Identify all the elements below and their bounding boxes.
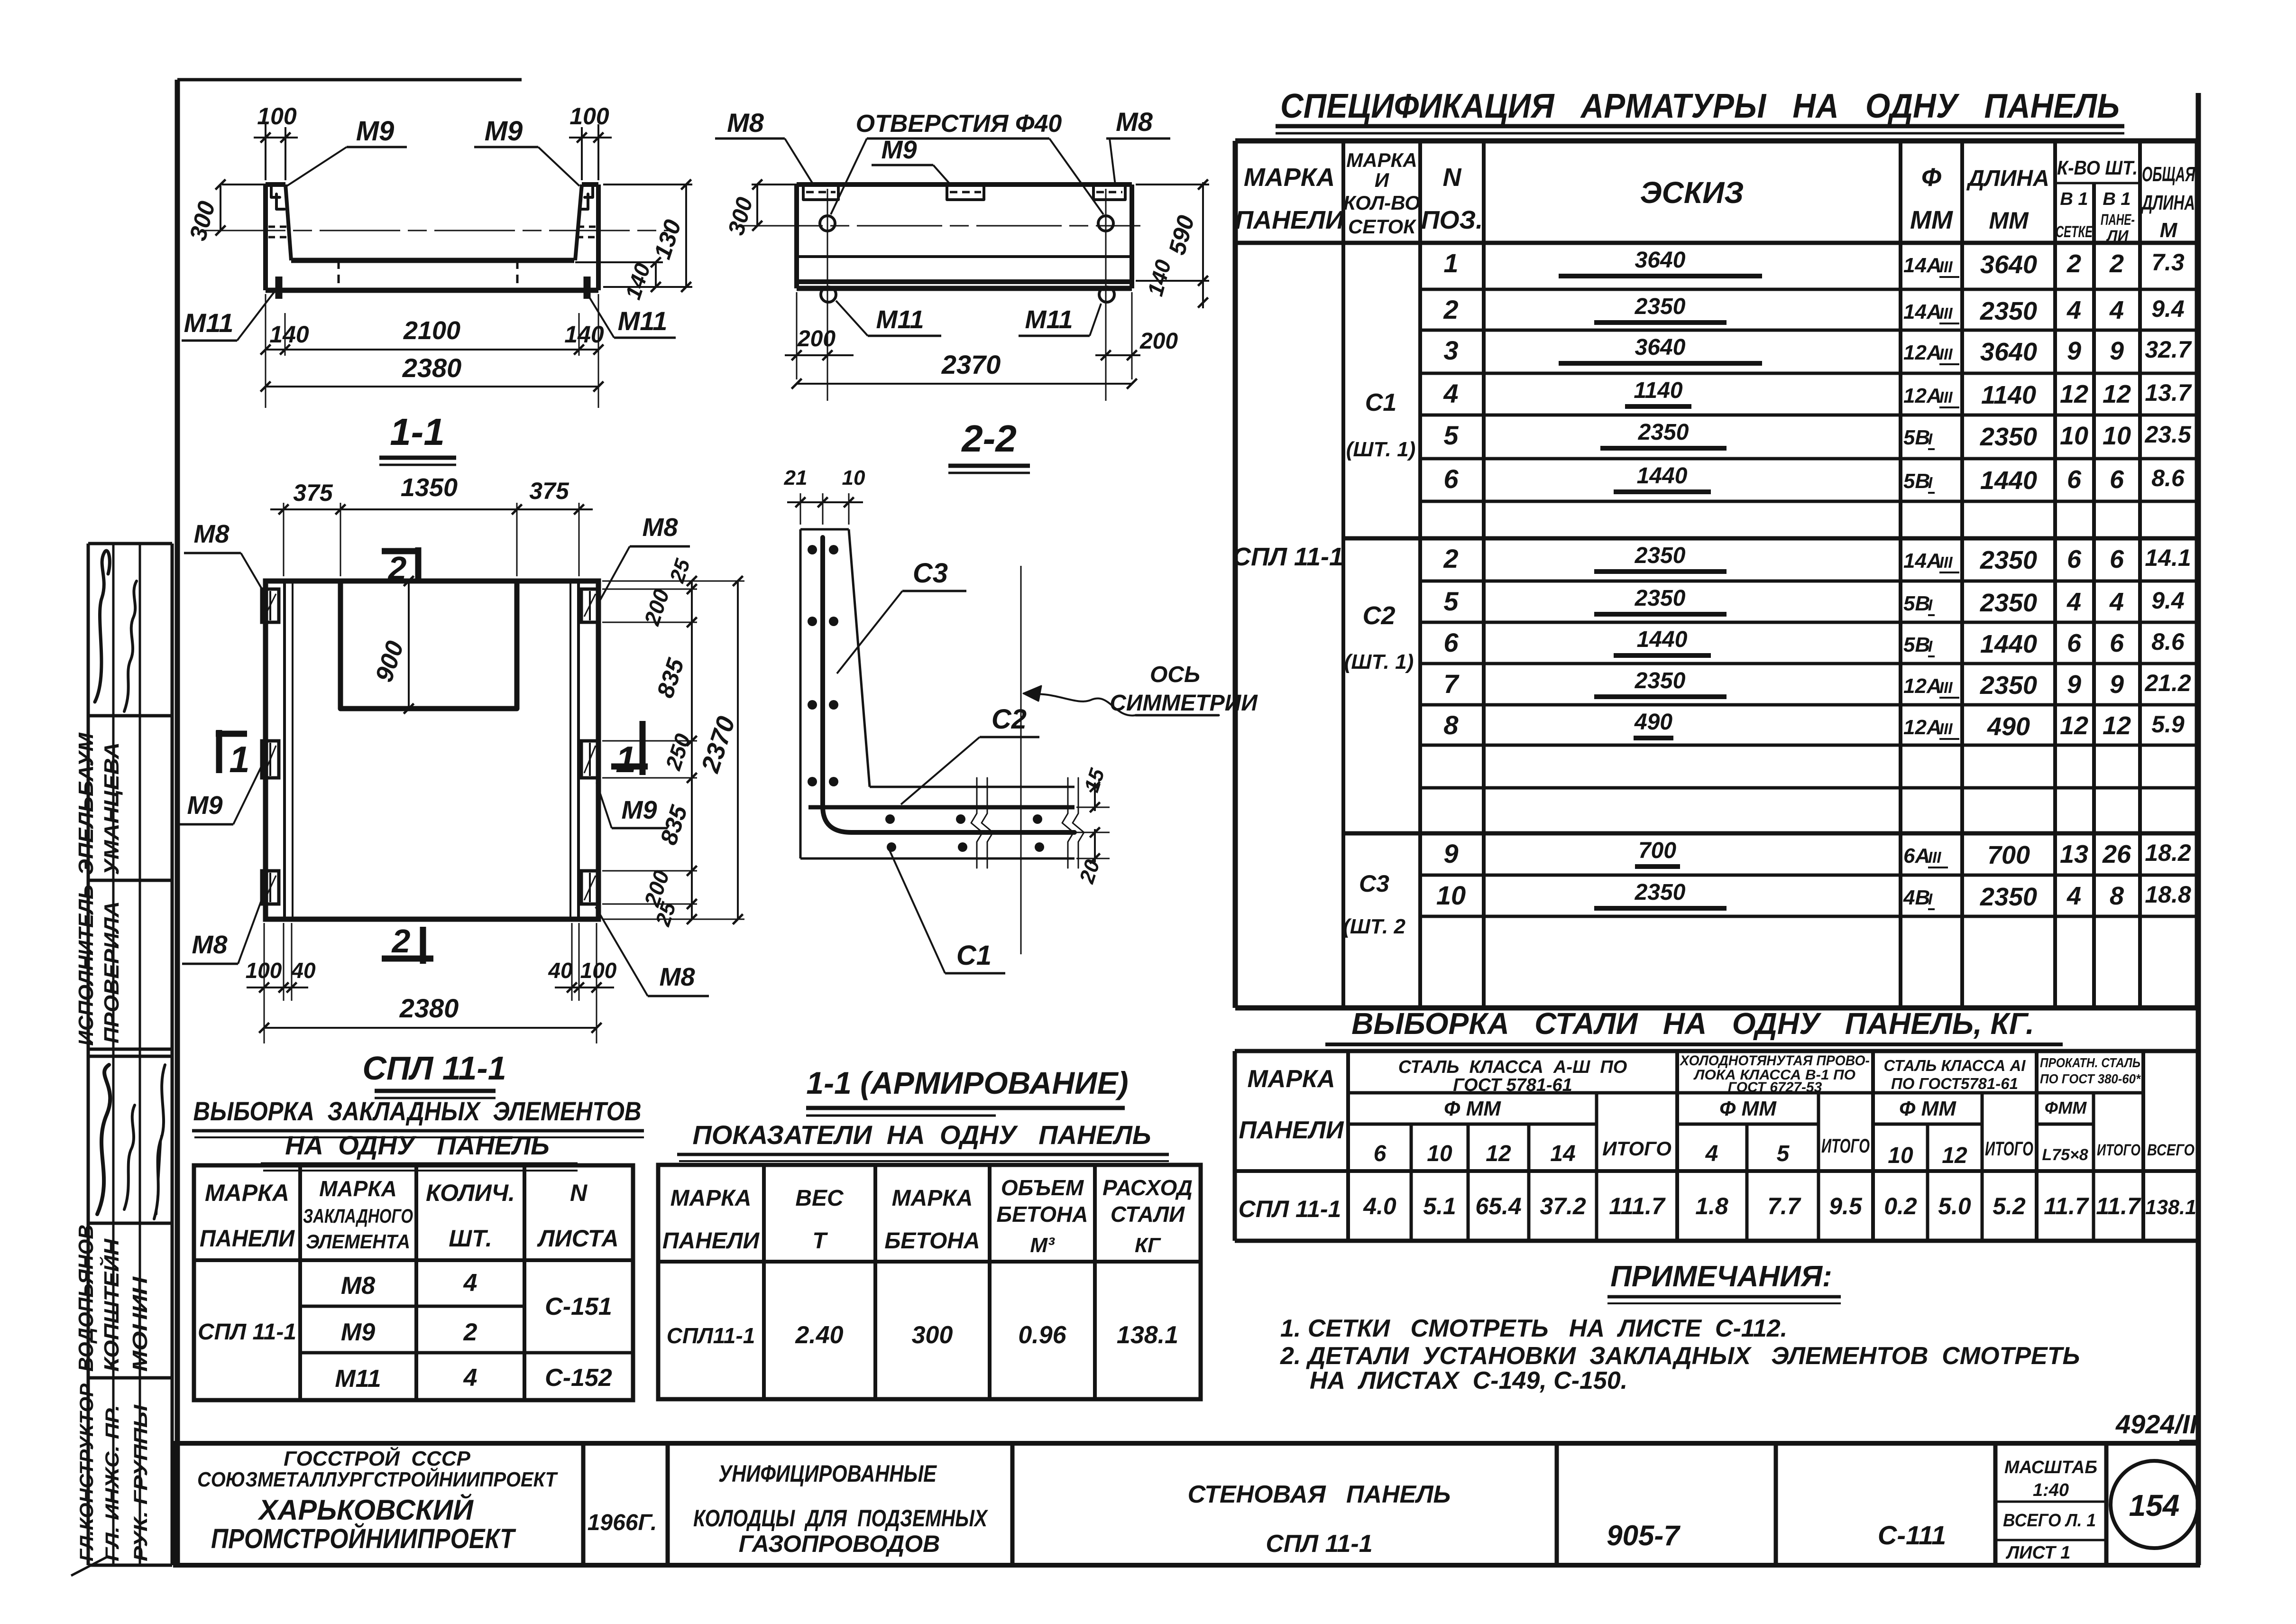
- svg-text:9: 9: [2067, 337, 2081, 365]
- embedded element M9 mid-left: [262, 741, 279, 778]
- horizontal axis line: [205, 230, 671, 231]
- svg-text:ГЛ.КОНСТРУКТОР: ГЛ.КОНСТРУКТОР: [76, 1384, 97, 1561]
- M11 circle right bottom: [1099, 287, 1114, 302]
- svg-text:ПАНЕ-: ПАНЕ-: [2101, 211, 2135, 228]
- svg-text:М11: М11: [184, 308, 234, 338]
- top notch M9 center: [947, 185, 984, 200]
- svg-text:14А: 14А: [1903, 300, 1942, 323]
- sheet frame left border: [175, 80, 180, 1565]
- svg-text:12: 12: [2060, 711, 2088, 740]
- svg-text:ЭЛЕМЕНТА: ЭЛЕМЕНТА: [306, 1230, 410, 1253]
- svg-text:3640: 3640: [1635, 335, 1686, 360]
- dashed joint lines in slab: [338, 260, 340, 289]
- svg-text:УНИФИЦИРОВАННЫЕ: УНИФИЦИРОВАННЫЕ: [718, 1460, 937, 1487]
- svg-text:ФММ: ФММ: [2045, 1098, 2087, 1117]
- svg-text:8: 8: [2110, 882, 2124, 910]
- svg-text:С2: С2: [992, 704, 1027, 735]
- svg-text:1-1: 1-1: [390, 411, 445, 453]
- svg-text:ПРОВЕРИЛА: ПРОВЕРИЛА: [100, 901, 123, 1043]
- title block frame: [173, 1443, 2200, 1565]
- svg-text:8.6: 8.6: [2151, 465, 2185, 491]
- dim 300 left: [220, 185, 221, 231]
- svg-text:9.4: 9.4: [2151, 295, 2185, 322]
- svg-text:III: III: [1939, 554, 1953, 571]
- horizontal axis line 2-2: [737, 225, 1140, 227]
- break marks on leg: [971, 778, 983, 868]
- svg-text:37.2: 37.2: [1540, 1193, 1586, 1219]
- hole F40 left: [820, 216, 835, 231]
- svg-text:140: 140: [564, 321, 604, 348]
- svg-text:4: 4: [2109, 588, 2124, 616]
- svg-text:10: 10: [1436, 880, 1466, 910]
- svg-text:ИТОГО: ИТОГО: [1985, 1137, 2033, 1160]
- embedded element M8 top-right: [581, 589, 598, 622]
- svg-text:2350: 2350: [1635, 668, 1686, 693]
- svg-text:ОТВЕРСТИЯ Ф40: ОТВЕРСТИЯ Ф40: [856, 110, 1062, 138]
- svg-text:ВСЕГО: ВСЕГО: [2147, 1141, 2195, 1159]
- svg-text:2.40: 2.40: [795, 1321, 843, 1349]
- svg-text:100: 100: [246, 958, 282, 983]
- svg-text:23.5: 23.5: [2144, 421, 2192, 448]
- svg-text:1440: 1440: [1637, 463, 1688, 489]
- svg-text:ЭСКИЗ: ЭСКИЗ: [1640, 175, 1744, 210]
- dims 140/2100/140 bottom: [265, 294, 266, 408]
- svg-text:ОБЩАЯ: ОБЩАЯ: [2142, 163, 2195, 186]
- svg-text:С1: С1: [956, 940, 992, 971]
- svg-text:СЕТКЕ: СЕТКЕ: [2056, 223, 2093, 241]
- svg-text:5: 5: [1443, 420, 1459, 450]
- bottom dims 100/40 left: [264, 923, 265, 1043]
- plan: step lines left: [283, 581, 286, 919]
- svg-text:РУК. ГРУППЫ: РУК. ГРУППЫ: [130, 1404, 151, 1561]
- svg-text:ОСЬ: ОСЬ: [1150, 662, 1200, 687]
- plan top dims 375/1350/375: [283, 503, 285, 576]
- embedded element M8 bottom-right: [581, 871, 598, 904]
- svg-text:КОЛОДЦЫ ДЛЯ ПОДЗЕМНЫХ: КОЛОДЦЫ ДЛЯ ПОДЗЕМНЫХ: [693, 1505, 988, 1532]
- svg-text:М8: М8: [642, 513, 678, 542]
- svg-text:490: 490: [1987, 712, 2030, 741]
- embedded element M9 mid-right: [581, 741, 598, 778]
- svg-text:6: 6: [2110, 629, 2124, 657]
- svg-text:12А: 12А: [1903, 716, 1942, 739]
- svg-text:I: I: [1928, 430, 1933, 448]
- svg-text:490: 490: [1634, 710, 1672, 735]
- svg-text:I: I: [1928, 596, 1933, 614]
- svg-text:138.1: 138.1: [1117, 1321, 1178, 1349]
- dim 200 left bottom: [796, 292, 798, 379]
- dim 2380 plan: [264, 1027, 597, 1029]
- svg-text:5В: 5В: [1903, 592, 1930, 615]
- section mark 1 left: [216, 730, 222, 773]
- svg-text:2350: 2350: [1635, 586, 1686, 611]
- svg-text:40: 40: [548, 958, 573, 983]
- svg-text:5В: 5В: [1903, 470, 1930, 493]
- svg-text:МАРКА: МАРКА: [1244, 163, 1335, 192]
- svg-text:(ШТ. 1): (ШТ. 1): [1344, 650, 1414, 674]
- svg-text:ПОЗ.: ПОЗ.: [1421, 206, 1483, 234]
- dim 2380 bottom: [266, 386, 598, 388]
- svg-text:СЕТОК: СЕТОК: [1348, 215, 1417, 238]
- svg-text:БЕТОНА: БЕТОНА: [997, 1202, 1088, 1227]
- svg-text:2100: 2100: [403, 316, 460, 345]
- svg-text:СПЛ 11-1: СПЛ 11-1: [1266, 1530, 1372, 1558]
- svg-text:5.0: 5.0: [1938, 1193, 1971, 1219]
- svg-text:КОЛИЧ.: КОЛИЧ.: [426, 1180, 515, 1206]
- svg-text:И: И: [1375, 169, 1389, 191]
- svg-text:СТАЛЬ КЛАССА АI: СТАЛЬ КЛАССА АI: [1884, 1057, 2026, 1074]
- svg-text:ХАРЬКОВСКИЙ: ХАРЬКОВСКИЙ: [257, 1494, 474, 1526]
- svg-text:13: 13: [2060, 840, 2088, 868]
- svg-text:Т: Т: [812, 1228, 828, 1254]
- svg-text:УМАНЦЕВА: УМАНЦЕВА: [100, 742, 123, 875]
- svg-text:ЗАКЛАДНОГО: ЗАКЛАДНОГО: [303, 1205, 413, 1227]
- svg-text:13.7: 13.7: [2145, 379, 2192, 406]
- svg-text:40: 40: [291, 958, 316, 983]
- svg-text:6: 6: [2110, 465, 2124, 494]
- svg-text:СПЛ 11-1: СПЛ 11-1: [1239, 1196, 1341, 1222]
- svg-text:2350: 2350: [1980, 546, 2037, 574]
- svg-text:2380: 2380: [402, 353, 462, 383]
- svg-text:III: III: [1939, 258, 1953, 276]
- signature stamp strip (rotated title block on left margin): [88, 544, 172, 1565]
- svg-text:М9: М9: [621, 796, 657, 824]
- svg-text:32.7: 32.7: [2145, 336, 2192, 363]
- svg-text:3640: 3640: [1980, 250, 2037, 279]
- svg-text:5.2: 5.2: [1993, 1193, 2026, 1219]
- svg-text:2: 2: [463, 1319, 478, 1346]
- svg-text:12А: 12А: [1903, 674, 1942, 698]
- svg-text:ПАНЕЛИ: ПАНЕЛИ: [1239, 1116, 1345, 1144]
- svg-text:III: III: [1939, 679, 1953, 696]
- svg-text:4: 4: [1443, 378, 1458, 408]
- svg-text:2350: 2350: [1635, 880, 1686, 905]
- steel table grid: [1235, 1051, 2198, 1241]
- svg-text:12А: 12А: [1903, 384, 1942, 407]
- svg-text:8.6: 8.6: [2151, 628, 2185, 655]
- svg-text:С1: С1: [1365, 389, 1396, 416]
- svg-text:НА ЛИСТАХ С-149, С-150.: НА ЛИСТАХ С-149, С-150.: [1310, 1367, 1627, 1394]
- dim 15 right of leg: [1076, 807, 1110, 808]
- svg-text:НА ОДНУ ПАНЕЛЬ: НА ОДНУ ПАНЕЛЬ: [285, 1130, 550, 1160]
- svg-text:ИТОГО: ИТОГО: [2097, 1141, 2140, 1159]
- reinforcement section: concrete outline: [800, 529, 1075, 858]
- dashed embed marks in left block: [268, 226, 288, 228]
- svg-text:100: 100: [569, 103, 609, 129]
- svg-text:СПЛ11-1: СПЛ11-1: [667, 1323, 755, 1348]
- svg-text:2350: 2350: [1635, 543, 1686, 568]
- page number circle: [2111, 1461, 2198, 1548]
- svg-text:6: 6: [1374, 1141, 1387, 1166]
- svg-text:М9: М9: [881, 136, 917, 164]
- svg-text:С-152: С-152: [545, 1364, 612, 1392]
- svg-text:3640: 3640: [1635, 248, 1686, 273]
- svg-text:9: 9: [2067, 670, 2081, 699]
- dim 2370: [797, 383, 1132, 385]
- svg-text:21: 21: [784, 466, 808, 489]
- svg-text:14.1: 14.1: [2145, 544, 2191, 571]
- svg-text:СПЛ 11-1: СПЛ 11-1: [362, 1050, 506, 1087]
- svg-text:4: 4: [463, 1269, 478, 1297]
- sheet frame top border (partial): [177, 78, 522, 82]
- svg-text:8: 8: [1443, 710, 1459, 740]
- embedded plate M11 right (tick): [584, 277, 591, 299]
- svg-text:3640: 3640: [1980, 338, 2037, 366]
- right dim chain 25/200/835/250/835/200/25: [602, 589, 697, 590]
- svg-text:10: 10: [2103, 422, 2131, 450]
- svg-text:I: I: [1928, 637, 1933, 655]
- svg-text:М8: М8: [192, 931, 227, 959]
- embedded step notch M9 right: [580, 186, 593, 209]
- svg-text:М8: М8: [727, 108, 764, 138]
- plan: step lines right: [569, 581, 571, 919]
- section mark 2 top: [382, 548, 418, 554]
- svg-text:Ф: Ф: [1921, 163, 1941, 192]
- svg-text:200: 200: [1139, 329, 1178, 354]
- svg-text:МОНИН: МОНИН: [129, 1276, 152, 1372]
- svg-text:СПЕЦИФИКАЦИЯ АРМАТУРЫ НА: СПЕЦИФИКАЦИЯ АРМАТУРЫ НА ОДНУ ПАНЕЛЬ: [1280, 87, 2120, 125]
- svg-text:Ф ММ: Ф ММ: [1899, 1097, 1956, 1120]
- svg-text:МАРКА: МАРКА: [319, 1176, 397, 1201]
- top notch M8 right: [1093, 185, 1125, 200]
- svg-text:ГОСТ 5781-61: ГОСТ 5781-61: [1453, 1075, 1572, 1095]
- svg-text:7: 7: [1443, 669, 1460, 699]
- svg-text:6: 6: [2067, 629, 2082, 657]
- svg-text:6: 6: [1443, 464, 1459, 494]
- svg-text:СТЕНОВАЯ ПАНЕЛЬ: СТЕНОВАЯ ПАНЕЛЬ: [1188, 1481, 1451, 1508]
- svg-text:100: 100: [257, 103, 297, 129]
- svg-text:МАРКА: МАРКА: [1247, 1065, 1335, 1093]
- svg-text:СТАЛИ: СТАЛИ: [1111, 1202, 1185, 1227]
- svg-text:1966Г.: 1966Г.: [588, 1510, 657, 1535]
- svg-text:1440: 1440: [1980, 630, 2037, 658]
- svg-text:1440: 1440: [1637, 627, 1688, 652]
- svg-text:С-111: С-111: [1878, 1520, 1946, 1550]
- section mark 1 right: [640, 721, 646, 775]
- svg-text:2: 2: [387, 550, 407, 587]
- embedded element M8 bottom-left: [262, 871, 279, 904]
- svg-text:111.7: 111.7: [1609, 1193, 1666, 1219]
- svg-text:С3: С3: [913, 558, 948, 589]
- leg bar dots: [885, 814, 895, 824]
- svg-text:26: 26: [2102, 840, 2131, 868]
- svg-text:300: 300: [912, 1321, 953, 1349]
- svg-text:М11: М11: [1025, 305, 1073, 334]
- frame corner tick bottom-left: [71, 1557, 107, 1576]
- svg-text:100: 100: [580, 958, 617, 983]
- wall bar dots: [808, 545, 817, 554]
- svg-text:М8: М8: [341, 1272, 375, 1300]
- svg-text:М11: М11: [876, 305, 924, 334]
- mesh C2 horizontal bar: [808, 805, 1075, 810]
- dim 140 right: [575, 261, 663, 263]
- svg-text:3: 3: [1443, 335, 1458, 365]
- svg-text:10: 10: [1427, 1141, 1452, 1166]
- svg-text:М9: М9: [341, 1319, 375, 1346]
- svg-text:ММ: ММ: [1910, 206, 1953, 234]
- svg-text:ИТОГО: ИТОГО: [1602, 1137, 1671, 1160]
- signature scribbles: [95, 551, 110, 702]
- svg-text:5.1: 5.1: [1423, 1193, 1456, 1219]
- dim 2370 right: [602, 581, 744, 582]
- section 2-2: panel elevation outline: [797, 185, 1132, 288]
- svg-text:2: 2: [1443, 295, 1458, 324]
- sheet frame right border: [2196, 93, 2201, 1565]
- svg-text:М9: М9: [187, 791, 222, 820]
- svg-text:М8: М8: [193, 520, 229, 548]
- svg-text:18.8: 18.8: [2145, 881, 2191, 908]
- svg-text:1-1 (АРМИРОВАНИЕ): 1-1 (АРМИРОВАНИЕ): [806, 1065, 1128, 1100]
- svg-text:М9: М9: [356, 116, 395, 147]
- svg-text:МАРКА: МАРКА: [1346, 149, 1417, 171]
- svg-text:ПО ГОСТ 380-60*: ПО ГОСТ 380-60*: [2040, 1071, 2141, 1086]
- svg-text:0.96: 0.96: [1018, 1321, 1066, 1349]
- svg-text:6: 6: [2110, 545, 2124, 573]
- svg-text:III: III: [1939, 388, 1953, 406]
- section 1-1: panel cross-section outline: [266, 185, 598, 290]
- svg-text:ОБЪЕМ: ОБЪЕМ: [1001, 1175, 1084, 1200]
- svg-text:2-2: 2-2: [961, 417, 1017, 460]
- svg-text:2380: 2380: [399, 993, 459, 1023]
- hole axes vertical: [827, 189, 828, 401]
- svg-text:Ф ММ: Ф ММ: [1444, 1097, 1501, 1120]
- svg-text:1: 1: [229, 738, 249, 780]
- embedded step notch M9 left: [271, 186, 285, 209]
- svg-text:С-151: С-151: [545, 1293, 612, 1320]
- svg-text:РАСХОД: РАСХОД: [1102, 1175, 1193, 1200]
- svg-text:ВЫБОРКА СТАЛИ НА ОДНУ: ВЫБОРКА СТАЛИ НА ОДНУ ПАНЕЛЬ, КГ.: [1351, 1006, 2034, 1041]
- svg-text:2370: 2370: [941, 350, 1001, 379]
- svg-text:ПРОКАТН. СТАЛЬ: ПРОКАТН. СТАЛЬ: [2040, 1055, 2140, 1070]
- svg-text:С3: С3: [1359, 870, 1389, 897]
- embedded element M8 top-left: [262, 589, 279, 622]
- svg-text:2350: 2350: [1638, 420, 1689, 445]
- svg-text:МАРКА: МАРКА: [892, 1186, 973, 1211]
- svg-text:1: 1: [615, 738, 636, 780]
- svg-text:ЛИ: ЛИ: [2106, 227, 2129, 244]
- svg-text:ПРОМСТРОЙНИИПРОЕКТ: ПРОМСТРОЙНИИПРОЕКТ: [211, 1523, 516, 1554]
- svg-text:12: 12: [1486, 1141, 1511, 1166]
- svg-text:4.0: 4.0: [1363, 1193, 1396, 1219]
- svg-text:К-ВО ШТ.: К-ВО ШТ.: [2057, 157, 2138, 179]
- svg-text:М11: М11: [335, 1365, 381, 1393]
- svg-text:N: N: [570, 1180, 588, 1206]
- svg-text:4: 4: [2066, 588, 2081, 616]
- svg-text:5В: 5В: [1903, 426, 1930, 449]
- svg-text:5: 5: [1777, 1141, 1790, 1166]
- svg-text:154: 154: [2129, 1488, 2180, 1522]
- dims 21/10 top of wall: [800, 493, 801, 525]
- svg-text:4: 4: [1705, 1141, 1718, 1166]
- svg-text:МАСШТАБ: МАСШТАБ: [2004, 1458, 2097, 1477]
- svg-text:7.3: 7.3: [2151, 249, 2185, 276]
- dim 20 right of leg: [1076, 832, 1110, 833]
- svg-text:12: 12: [2103, 711, 2131, 740]
- svg-text:М9: М9: [485, 116, 523, 147]
- svg-text:ВСЕГО Л. 1: ВСЕГО Л. 1: [2003, 1511, 2096, 1531]
- svg-text:III: III: [1939, 720, 1953, 738]
- svg-text:1140: 1140: [1981, 381, 2036, 409]
- plan view: panel outline: [266, 581, 598, 919]
- svg-text:1: 1: [1443, 248, 1458, 278]
- spec table grid: [1235, 141, 2197, 1008]
- svg-text:N: N: [1443, 163, 1462, 192]
- svg-text:4924/II: 4924/II: [2115, 1409, 2198, 1439]
- svg-text:12А: 12А: [1903, 341, 1942, 364]
- svg-text:ПАНЕЛИ: ПАНЕЛИ: [1235, 206, 1344, 234]
- svg-text:2: 2: [2109, 249, 2124, 278]
- svg-text:2350: 2350: [1980, 883, 2037, 911]
- svg-text:ГАЗОПРОВОДОВ: ГАЗОПРОВОДОВ: [739, 1531, 940, 1557]
- svg-text:МАРКА: МАРКА: [670, 1186, 752, 1211]
- svg-text:138.1: 138.1: [2145, 1196, 2196, 1219]
- svg-text:10: 10: [1888, 1143, 1913, 1168]
- svg-text:I: I: [1928, 474, 1933, 491]
- svg-text:375: 375: [529, 478, 569, 504]
- svg-text:КОПШТЕЙН: КОПШТЕЙН: [99, 1238, 123, 1372]
- svg-text:4: 4: [2109, 296, 2124, 324]
- hole F40 right: [1098, 216, 1113, 231]
- svg-text:ММ: ММ: [1989, 207, 2029, 234]
- dim 900 in notch: [408, 581, 410, 709]
- svg-text:1350: 1350: [401, 473, 458, 502]
- svg-text:9.4: 9.4: [2151, 587, 2185, 614]
- dim 130 right: [603, 184, 692, 185]
- svg-text:14: 14: [1550, 1141, 1575, 1166]
- svg-text:6: 6: [2067, 465, 2082, 494]
- svg-text:2350: 2350: [1635, 294, 1686, 319]
- svg-text:10: 10: [2060, 422, 2088, 450]
- svg-text:11.7: 11.7: [2096, 1193, 2141, 1219]
- svg-text:12: 12: [2060, 380, 2088, 408]
- svg-text:700: 700: [1987, 841, 2030, 869]
- dim 300 left of 2-2: [752, 184, 797, 185]
- M11 circle left bottom: [821, 287, 836, 302]
- dim 200 right bottom: [1131, 292, 1133, 379]
- svg-text:БЕТОНА: БЕТОНА: [884, 1228, 980, 1254]
- svg-text:1:40: 1:40: [2033, 1480, 2069, 1500]
- svg-text:1140: 1140: [1634, 378, 1683, 403]
- svg-text:375: 375: [293, 480, 333, 506]
- svg-text:ПОКАЗАТЕЛИ НА ОДНУ ПАНЕЛЬ: ПОКАЗАТЕЛИ НА ОДНУ ПАНЕЛЬ: [692, 1120, 1151, 1150]
- svg-text:14А: 14А: [1903, 549, 1942, 572]
- svg-text:III: III: [1939, 304, 1953, 322]
- svg-text:ИСПОЛНИТЕЛЬ: ИСПОЛНИТЕЛЬ: [74, 885, 98, 1046]
- svg-text:М³: М³: [1030, 1234, 1055, 1257]
- svg-text:9.5: 9.5: [1829, 1193, 1863, 1219]
- svg-text:ПО ГОСТ5781-61: ПО ГОСТ5781-61: [1891, 1075, 2018, 1092]
- svg-text:4: 4: [463, 1364, 478, 1392]
- svg-text:1. СЕТКИ СМОТРЕТЬ НА ЛИСТ: 1. СЕТКИ СМОТРЕТЬ НА ЛИСТЕ С-112.: [1280, 1315, 1787, 1342]
- svg-text:9: 9: [2110, 670, 2124, 699]
- svg-text:(ШТ. 2: (ШТ. 2: [1343, 915, 1405, 938]
- svg-text:ВОДОПЬЯНОВ: ВОДОПЬЯНОВ: [74, 1225, 98, 1372]
- svg-text:ГОССТРОЙ СССР: ГОССТРОЙ СССР: [284, 1446, 470, 1470]
- svg-text:2350: 2350: [1980, 297, 2037, 325]
- svg-text:М: М: [2160, 219, 2178, 242]
- svg-text:1440: 1440: [1980, 466, 2037, 495]
- svg-text:КГ: КГ: [1135, 1234, 1161, 1257]
- axis of symmetry line: [1020, 566, 1022, 954]
- svg-text:9: 9: [2110, 337, 2124, 365]
- svg-text:10: 10: [842, 466, 865, 489]
- svg-text:СПЛ 11-1: СПЛ 11-1: [1232, 543, 1343, 571]
- svg-text:ПАНЕЛИ: ПАНЕЛИ: [200, 1225, 295, 1252]
- zakladnye table grid: [194, 1165, 633, 1400]
- svg-text:5: 5: [1443, 586, 1459, 616]
- svg-text:7.7: 7.7: [1767, 1193, 1801, 1219]
- svg-text:4В: 4В: [1903, 886, 1930, 909]
- svg-text:12: 12: [2103, 380, 2131, 408]
